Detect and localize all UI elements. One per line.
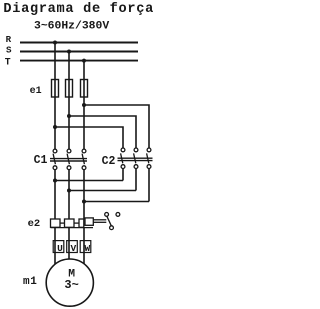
svg-text:U: U	[57, 243, 63, 254]
svg-text:C2: C2	[102, 155, 116, 168]
svg-text:3~: 3~	[64, 278, 78, 292]
svg-text:Diagrama de força: Diagrama de força	[3, 2, 154, 17]
svg-text:3~60Hz/380V: 3~60Hz/380V	[34, 21, 109, 33]
svg-text:m1: m1	[23, 276, 37, 288]
svg-text:C1: C1	[34, 154, 48, 167]
svg-text:T: T	[5, 56, 11, 67]
svg-text:e2: e2	[28, 218, 41, 230]
svg-text:W: W	[84, 243, 90, 254]
svg-text:V: V	[70, 243, 76, 254]
svg-text:e1: e1	[30, 86, 42, 97]
svg-text:S: S	[6, 44, 12, 55]
